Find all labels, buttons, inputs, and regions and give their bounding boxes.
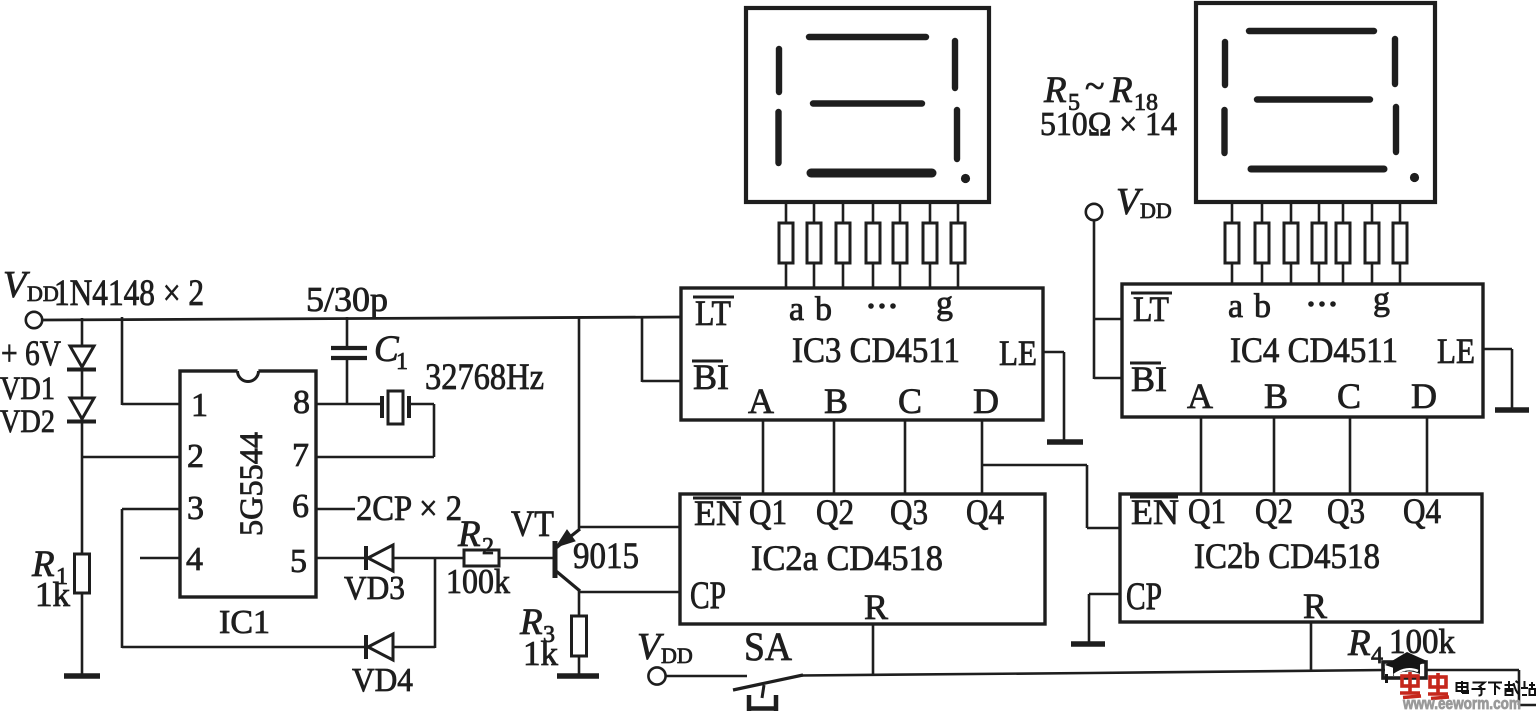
svg-text:VD4: VD4 [352, 662, 413, 699]
svg-text:a: a [1228, 288, 1243, 325]
svg-text:LT: LT [1133, 289, 1169, 329]
svg-text:g: g [1373, 281, 1390, 318]
svg-text:A: A [1187, 376, 1213, 416]
svg-text:5G5544: 5G5544 [234, 432, 270, 536]
svg-text:IC4 CD4511: IC4 CD4511 [1230, 330, 1398, 370]
svg-text:V: V [3, 264, 30, 306]
svg-text:1: 1 [396, 349, 408, 375]
svg-text:D: D [1411, 376, 1437, 416]
svg-text:2CP × 2: 2CP × 2 [356, 488, 462, 528]
svg-text:V: V [637, 626, 664, 668]
svg-text:1N4148 × 2: 1N4148 × 2 [54, 273, 204, 314]
svg-text:8: 8 [293, 384, 310, 421]
svg-text:LE: LE [999, 333, 1037, 373]
svg-text:100k: 100k [446, 562, 510, 601]
svg-text:+ 6V: + 6V [1, 333, 61, 373]
svg-text:V: V [1116, 181, 1143, 223]
svg-text:CP: CP [690, 574, 726, 617]
svg-text:IC2b CD4518: IC2b CD4518 [1194, 536, 1380, 576]
svg-text:C: C [1337, 376, 1361, 416]
svg-text:R: R [1347, 623, 1371, 664]
svg-text:www.eeworm.com: www.eeworm.com [1402, 695, 1521, 711]
svg-text:DD: DD [1140, 198, 1172, 223]
svg-text:CP: CP [1126, 575, 1162, 618]
svg-text:510Ω × 14: 510Ω × 14 [1040, 106, 1177, 143]
svg-text:LT: LT [695, 293, 731, 333]
svg-text:2: 2 [187, 438, 204, 475]
svg-text:B: B [824, 381, 848, 421]
svg-text:Q4: Q4 [1403, 491, 1441, 531]
svg-text:VD3: VD3 [344, 570, 405, 607]
svg-text:6: 6 [292, 488, 309, 525]
svg-text:Q3: Q3 [1327, 491, 1365, 531]
svg-text:VT: VT [511, 504, 554, 545]
svg-text:g: g [936, 285, 953, 322]
svg-text:5/30p: 5/30p [306, 280, 388, 319]
svg-text:Q2: Q2 [816, 492, 854, 532]
svg-text:R: R [1043, 70, 1067, 111]
svg-text:IC1: IC1 [219, 604, 270, 641]
svg-text:C: C [898, 381, 922, 421]
svg-text:a: a [789, 291, 804, 328]
svg-text:~: ~ [1085, 66, 1104, 106]
svg-text:9015: 9015 [573, 536, 639, 577]
svg-text:Q3: Q3 [890, 492, 928, 532]
svg-text:1: 1 [191, 387, 208, 424]
svg-text:DD: DD [661, 643, 693, 668]
svg-text:100k: 100k [1389, 622, 1455, 661]
svg-text:Q2: Q2 [1255, 491, 1293, 531]
svg-text:LE: LE [1437, 331, 1475, 371]
svg-text:Q1: Q1 [1188, 491, 1226, 531]
svg-text:A: A [748, 381, 774, 421]
svg-text:1k: 1k [35, 575, 71, 614]
svg-text:4: 4 [1371, 643, 1383, 669]
svg-text:4: 4 [186, 541, 203, 578]
svg-text:B: B [1264, 376, 1288, 416]
svg-text:5: 5 [290, 543, 307, 580]
svg-text:VD1: VD1 [0, 371, 55, 407]
svg-text:7: 7 [292, 437, 309, 474]
svg-text:b: b [1254, 288, 1271, 325]
svg-text:b: b [815, 291, 832, 328]
svg-text:VD2: VD2 [0, 404, 55, 440]
svg-text:32768Hz: 32768Hz [425, 357, 544, 398]
svg-text:1k: 1k [523, 634, 559, 673]
svg-text:R: R [1303, 586, 1327, 626]
svg-text:3: 3 [187, 490, 204, 527]
svg-text:BI: BI [1131, 359, 1167, 399]
svg-text:R: R [864, 587, 888, 627]
svg-text:SA: SA [744, 624, 792, 669]
svg-text:Q4: Q4 [966, 492, 1004, 532]
svg-text:Q1: Q1 [749, 492, 787, 532]
svg-text:D: D [973, 381, 999, 421]
svg-text:BI: BI [693, 357, 729, 397]
svg-text:R: R [457, 514, 481, 555]
svg-text:2: 2 [482, 534, 494, 560]
svg-text:IC3 CD4511: IC3 CD4511 [792, 330, 960, 370]
svg-text:IC2a CD4518: IC2a CD4518 [751, 538, 943, 578]
svg-text:R: R [1109, 70, 1133, 111]
